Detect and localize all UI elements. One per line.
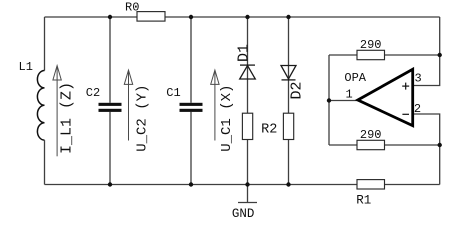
wire: D1 branch lower: [247, 140, 249, 185]
svg-text:C1: C1: [166, 86, 180, 100]
node: top 290 right: [438, 53, 442, 57]
probe arrow U_C2: [124, 70, 132, 140]
capacitor C2: [99, 103, 122, 112]
wire: bottom rail: [45, 184, 440, 186]
svg-text:D2: D2: [289, 81, 306, 99]
svg-text:R2: R2: [261, 123, 277, 138]
node: C1 top: [189, 15, 193, 19]
node: D1 top: [245, 15, 249, 19]
diode D1: [240, 65, 256, 79]
wire: right rail upper with pin 3 stub: [413, 17, 439, 86]
node: C2 bottom: [108, 182, 112, 186]
wire: C2 branch lower: [109, 112, 111, 185]
junction dots on top rail: [108, 15, 442, 187]
node: bottom 290 right: [438, 143, 442, 147]
svg-text:R0: R0: [125, 1, 139, 15]
diode D2: [281, 66, 296, 80]
op-amp minus input mark: [402, 113, 409, 115]
resistor 290 (bottom): [357, 140, 385, 149]
wire: op-amp left rail: [328, 55, 330, 145]
svg-text:290: 290: [360, 128, 382, 142]
resistor R0: [137, 12, 165, 22]
node: op-amp output pin 1: [327, 98, 331, 102]
resistor R2 (right): [283, 113, 293, 139]
svg-text:R1: R1: [356, 194, 371, 208]
wire: bottom feedback 290: [329, 144, 440, 146]
wire: D2 branch: [288, 17, 290, 113]
wire: C2 branch upper: [109, 17, 111, 103]
svg-text:U_C1 (X): U_C1 (X): [219, 85, 235, 152]
probe arrow I_L1: [53, 66, 61, 157]
svg-text:L1: L1: [19, 60, 33, 74]
node: D2 bottom: [286, 182, 290, 186]
svg-text:OPA: OPA: [344, 71, 366, 85]
svg-text:D1: D1: [235, 44, 252, 62]
wire: D1 branch: [247, 17, 249, 113]
wire: D2 branch lower: [288, 140, 290, 185]
dot: zero of R0: [135, 6, 137, 8]
ground GND: [238, 185, 257, 203]
wire: left rail with inductor body: [44, 17, 46, 71]
op-amp plus input mark: [402, 83, 409, 90]
resistor 290 (top): [357, 50, 385, 59]
dot: zero of bottom 290: [377, 133, 379, 135]
resistor R1: [357, 180, 385, 189]
svg-text:GND: GND: [232, 207, 255, 221]
svg-text:I_L1 (Z): I_L1 (Z): [59, 82, 76, 154]
wire: top rail: [45, 16, 440, 18]
inductor L1: [37, 71, 44, 141]
wire: C1 branch upper: [190, 17, 192, 103]
node: C2 top: [108, 15, 112, 19]
wire: left rail lower segment: [44, 140, 46, 184]
wire: C1 branch lower: [190, 112, 192, 185]
svg-text:290: 290: [360, 38, 382, 52]
wire: pin 2 stub to bottom rail: [413, 114, 439, 185]
resistor R2 (left): [242, 113, 252, 139]
dot: zero of top 290: [377, 43, 379, 45]
svg-text:2: 2: [414, 102, 421, 116]
capacitor C1: [180, 103, 203, 112]
node: D2 top: [286, 15, 290, 19]
probe arrow U_C1: [211, 70, 219, 140]
svg-text:U_C2 (Y): U_C2 (Y): [135, 85, 151, 152]
node: C1 bottom: [189, 182, 193, 186]
svg-text:1: 1: [346, 88, 353, 102]
svg-text:C2: C2: [86, 86, 100, 100]
svg-text:3: 3: [415, 71, 422, 85]
node: GND junction: [245, 182, 249, 186]
wire: top feedback 290: [329, 54, 440, 56]
wire: pin 1 lead: [329, 100, 357, 102]
op-amp OPA: [358, 69, 413, 125]
